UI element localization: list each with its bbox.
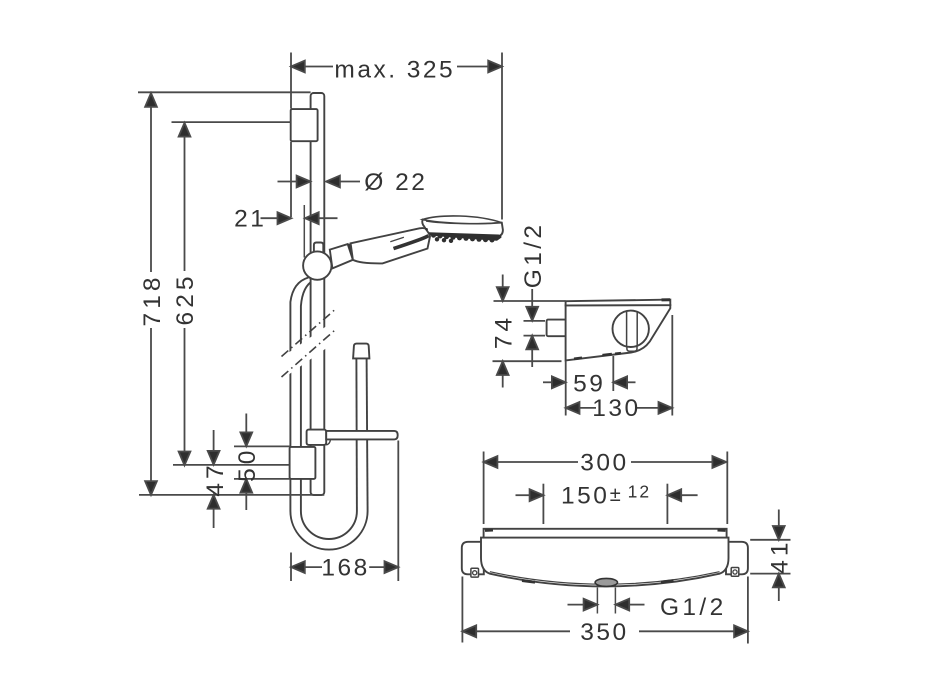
- thermostat front view: left nub: [471, 568, 479, 577]
- shower head face: [422, 220, 503, 237]
- dimension 168: [291, 441, 398, 582]
- svg-text:±: ±: [610, 484, 621, 506]
- thermostat side view: inlet connector: [547, 320, 567, 337]
- hose right segment: [356, 359, 367, 512]
- thermostat side view: knob: [613, 311, 649, 347]
- svg-text:47: 47: [202, 461, 229, 496]
- dimension max. 325: [291, 53, 502, 220]
- thermostat front view: body: [481, 538, 729, 587]
- thermostat front view: outlet: [595, 578, 617, 586]
- wall bar: [311, 93, 325, 495]
- svg-text:718: 718: [139, 274, 166, 327]
- thermostat side view: bottom ticks: [574, 358, 582, 359]
- hose conical connector: [353, 344, 369, 359]
- svg-text:168: 168: [321, 555, 369, 582]
- svg-text:50: 50: [234, 447, 261, 482]
- handle select button: [390, 237, 404, 242]
- dimension 150: [516, 484, 698, 524]
- dimension 74: [493, 275, 566, 388]
- thermostat side view: top plate: [566, 300, 671, 306]
- shelf arm: [326, 431, 398, 440]
- svg-text:130: 130: [592, 395, 640, 422]
- dimension 41: [750, 510, 790, 602]
- svg-text:max. 325: max. 325: [334, 57, 455, 84]
- slider knob: [303, 251, 331, 279]
- handle collar: [330, 244, 353, 268]
- hose U-bend: [290, 511, 367, 550]
- thermostat front view: inner bottom line: [490, 572, 720, 585]
- svg-text:41: 41: [767, 538, 794, 573]
- dimension diameter 22: [278, 176, 361, 188]
- handle joint line: [349, 244, 354, 260]
- dimension G1/2 side: [524, 289, 546, 367]
- thermostat front view: right nub: [731, 568, 739, 577]
- slider pin: [314, 243, 323, 257]
- thermostat side view: body: [566, 305, 671, 360]
- handle dot: [425, 228, 428, 231]
- thermostat front view: right wall block: [726, 542, 748, 575]
- svg-text:300: 300: [580, 450, 628, 477]
- dimension 625: [172, 122, 291, 465]
- dimension 130: [566, 315, 673, 416]
- dimension 300: [484, 452, 728, 525]
- thermostat front view: bottom ticks: [522, 581, 535, 583]
- hose left segment: [290, 278, 313, 512]
- svg-text:74: 74: [491, 314, 518, 349]
- svg-text:Ø 22: Ø 22: [364, 169, 427, 196]
- svg-text:59: 59: [573, 371, 605, 398]
- svg-text:12: 12: [628, 482, 651, 502]
- dimension 50: [234, 414, 290, 511]
- thermostat side view: knob tab: [627, 346, 637, 352]
- thermostat front view: top plate: [484, 529, 727, 538]
- shelf holder block: [307, 430, 327, 445]
- dimension G1/2 bottom: [568, 588, 645, 614]
- shower head rim inner line: [426, 221, 500, 224]
- shower head nozzle row: [429, 232, 502, 243]
- dimension 350: [462, 577, 748, 644]
- svg-text:G1/2: G1/2: [520, 222, 547, 289]
- svg-text:350: 350: [580, 619, 628, 646]
- bar break band: [278, 310, 338, 382]
- top wall bracket: [291, 109, 318, 141]
- hand shower handle: [351, 228, 430, 263]
- dimension 21: [261, 205, 338, 258]
- shower head rim: [423, 216, 502, 224]
- thermostat front view: left wall block: [462, 542, 484, 575]
- svg-text:150: 150: [561, 482, 609, 509]
- svg-text:G1/2: G1/2: [660, 594, 727, 621]
- bottom wall bracket: [290, 447, 316, 479]
- dimension 718: [138, 92, 324, 495]
- svg-text:625: 625: [172, 273, 199, 326]
- svg-text:21: 21: [234, 206, 266, 233]
- dimension 47: [173, 430, 289, 528]
- dimension 59: [543, 356, 636, 416]
